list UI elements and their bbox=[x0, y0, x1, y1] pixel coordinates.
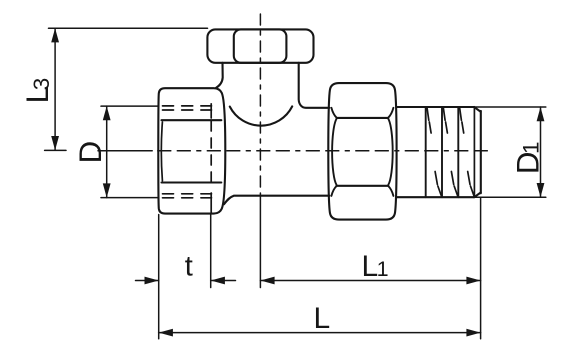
union nut bottom facet line bbox=[337, 185, 389, 187]
L1 extension line right bbox=[480, 198, 482, 339]
L dimension line bbox=[159, 332, 481, 334]
svg-text:1: 1 bbox=[377, 257, 389, 281]
union nut corner chamfer top-right bbox=[388, 108, 393, 118]
D arrow down bbox=[103, 183, 111, 197]
L3 arrow up bbox=[51, 28, 59, 42]
dimension D extension top bbox=[101, 105, 159, 107]
dome intersection arc bbox=[230, 106, 292, 125]
union nut silhouette bbox=[328, 83, 396, 220]
body bottom edge bbox=[224, 196, 329, 205]
union nut corner chamfer bottom-left bbox=[331, 186, 336, 196]
hex cap outer bbox=[207, 29, 313, 62]
union nut left chamfer arc bbox=[332, 119, 336, 185]
coupling left chamfer arc bbox=[161, 122, 162, 181]
t extension line left bbox=[158, 215, 160, 339]
tail bottom edge and D1 extension bbox=[397, 196, 475, 198]
dimension D1 line bbox=[540, 107, 542, 197]
thread crest line 1 bbox=[425, 107, 427, 197]
centerline solid extension below body bbox=[259, 196, 261, 288]
thread crest line 3 bbox=[457, 107, 459, 197]
D1 arrow down bbox=[537, 183, 545, 197]
vertical centerline bbox=[259, 14, 261, 196]
svg-text:3: 3 bbox=[29, 78, 54, 91]
svg-text:L: L bbox=[314, 302, 331, 335]
t arrow right-pointing bbox=[145, 277, 159, 285]
D1 arrow up bbox=[537, 107, 545, 121]
thread root marks top bbox=[427, 108, 464, 133]
union nut top facet line bbox=[337, 117, 389, 119]
union nut corner chamfer top-left bbox=[331, 108, 336, 118]
t extension line right bbox=[210, 215, 212, 288]
t dimension line right bbox=[211, 280, 236, 282]
thread root marks bottom bbox=[435, 172, 474, 197]
tail end chamfer diagonal bottom bbox=[474, 193, 481, 198]
thread crest line 2 bbox=[441, 107, 443, 197]
t dimension line left bbox=[136, 280, 159, 282]
svg-text:t: t bbox=[185, 251, 193, 283]
dimension D line bbox=[106, 106, 108, 198]
L arrow left bbox=[159, 329, 173, 337]
tail end chamfer diagonal top bbox=[474, 107, 481, 112]
tail end face bbox=[480, 111, 482, 193]
dimension L3 line bbox=[54, 28, 56, 150]
neck right fillet bbox=[299, 63, 330, 108]
neck left fillet bbox=[216, 63, 223, 88]
coupling internal thread dashed lines bbox=[163, 106, 212, 198]
union nut corner chamfer bottom-right bbox=[388, 186, 393, 196]
union nut right chamfer arc bbox=[388, 119, 392, 185]
tail chamfer line bbox=[473, 108, 475, 196]
dimension D extension bottom bbox=[101, 197, 159, 199]
L1 dimension line bbox=[260, 280, 480, 282]
svg-text:1: 1 bbox=[518, 141, 543, 154]
t arrow left-pointing bbox=[211, 277, 225, 285]
tail top edge and D1 extension bbox=[397, 106, 475, 108]
hex cap middle facet bbox=[234, 29, 287, 62]
svg-text:D: D bbox=[72, 141, 108, 164]
L1 arrow right bbox=[466, 277, 480, 285]
horizontal centerline bbox=[45, 149, 488, 151]
L arrow right bbox=[466, 329, 480, 337]
dimension L3 extension line top bbox=[49, 27, 208, 29]
D arrow up bbox=[103, 106, 111, 120]
coupling silhouette bbox=[158, 88, 225, 213]
L1 arrow left bbox=[260, 277, 274, 285]
coupling bottom facet line bbox=[162, 181, 222, 183]
L3 arrow down bbox=[51, 136, 59, 150]
coupling thread end line bbox=[210, 104, 212, 214]
coupling top facet line bbox=[162, 119, 222, 121]
